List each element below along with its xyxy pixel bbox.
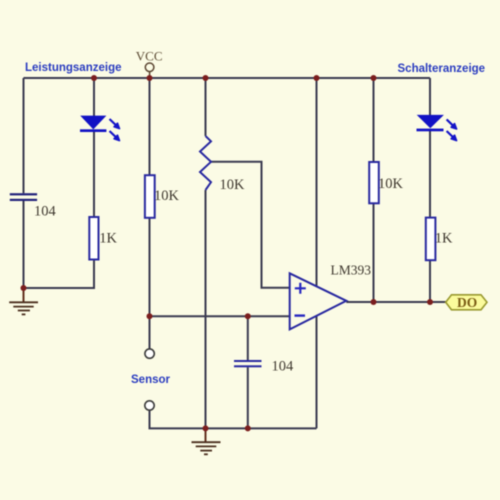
svg-text:10K: 10K [154, 188, 180, 204]
node C2 top [245, 313, 251, 319]
node pot/VCC rail [203, 75, 209, 81]
ground GND2 [192, 428, 221, 454]
wire op-amp power pin top [316, 78, 318, 286]
wire R4 bottom to output [429, 260, 431, 302]
svg-text:104: 104 [272, 359, 295, 375]
wire output to DO [346, 301, 445, 303]
wire pot branch [205, 78, 207, 136]
wire LED1 branch [93, 78, 95, 116]
ground GND1 [9, 288, 38, 314]
node sensor terminal 1 [145, 349, 154, 358]
resistor R1 10K [145, 175, 180, 218]
node R3/output [371, 299, 377, 305]
node C2 bottom [245, 425, 251, 431]
node sensor junction [147, 313, 153, 319]
power port VCC [136, 49, 163, 79]
wire pot bottom to ground rail [205, 190, 207, 428]
wire LED2 to R4 [429, 131, 431, 218]
svg-text:Sensor: Sensor [131, 374, 171, 386]
LED D1 [80, 116, 120, 141]
wire LED2 branch [429, 78, 431, 115]
svg-text:Leistungsanzeige: Leistungsanzeige [25, 62, 122, 74]
wire R3 bottom to output [373, 203, 375, 302]
svg-text:LM393: LM393 [331, 263, 372, 278]
capacitor C1 104 [10, 193, 57, 219]
port DO [446, 295, 487, 310]
node ground left [21, 285, 27, 291]
svg-text:VCC: VCC [136, 49, 163, 64]
wire ground node to R2 bottom [24, 260, 95, 289]
node LED1/VCC rail [91, 75, 97, 81]
node R4/output [427, 299, 433, 305]
svg-text:1K: 1K [435, 231, 453, 247]
resistor R4 1K [426, 218, 453, 261]
svg-text:10K: 10K [220, 177, 246, 193]
potentiometer RP1 10K [200, 136, 245, 193]
wire pot wiper to non-inverting input [211, 162, 290, 288]
op-amp U1 LM393 [290, 263, 372, 330]
wire op-amp power pin bottom [316, 316, 318, 428]
wire R1 bottom to sensor node [149, 218, 151, 316]
node sensor terminal 2 [145, 401, 154, 410]
svg-text:DO: DO [457, 295, 477, 310]
svg-text:10K: 10K [378, 176, 404, 192]
resistor R2 1K [89, 217, 117, 260]
wire left branch down to C1 [23, 78, 25, 193]
node VCC entry [147, 75, 153, 81]
svg-text:1K: 1K [99, 231, 117, 247]
wire sensor lower terminal to ground rail [150, 410, 317, 428]
LED D2 [417, 115, 457, 141]
wire C2 bottom [247, 367, 249, 428]
wire LED1 to R2 [93, 131, 95, 217]
wire inverting input [150, 315, 290, 317]
resistor R3 10K [369, 162, 403, 203]
node R3/VCC rail [371, 75, 377, 81]
wire sensor node to terminal [149, 316, 151, 349]
wire R3 branch [373, 78, 375, 162]
capacitor C2 104 [234, 359, 294, 375]
wire C1 bottom to ground node [23, 201, 25, 288]
wire top rail VCC [24, 77, 431, 79]
wire C2 top [247, 316, 249, 360]
svg-text:Schalteranzeige: Schalteranzeige [398, 63, 486, 75]
svg-text:104: 104 [34, 204, 57, 220]
wire VCC branch down to R1 [149, 78, 151, 175]
node pot/ground rail [203, 425, 209, 431]
node opamp power/VCC rail [314, 75, 320, 81]
